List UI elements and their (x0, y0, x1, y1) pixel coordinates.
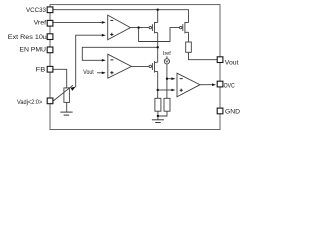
svg-text:VCC33: VCC33 (26, 7, 47, 14)
svg-text:EN PMU: EN PMU (19, 47, 46, 54)
chip border (50, 5, 220, 130)
wire VCC33 rail (53, 10, 189, 23)
svg-text:Vout: Vout (83, 70, 94, 76)
junction node A (157, 46, 159, 48)
junction rail-M1 (157, 9, 159, 11)
junction sense node (157, 89, 159, 91)
wire Radj bottom to ground (66, 102, 68, 112)
pin FB (47, 66, 53, 72)
wire FB riser to U1 plus (76, 35, 102, 87)
ground under R1 R2 (152, 120, 164, 123)
wire rail to M1 source (157, 10, 159, 23)
wire U3 output to OVC pin (200, 84, 212, 86)
pin GND (217, 108, 223, 114)
wire R1 bottom to ground junction (157, 111, 159, 119)
wire U1 output to M1 gate (130, 27, 149, 29)
wiper arrow Vadj (53, 85, 73, 101)
ground under Radj (60, 112, 72, 115)
op-amp U2 sense buffer (108, 54, 132, 78)
comparator U3 overcurrent (177, 73, 200, 97)
junction node B Iref (166, 78, 168, 80)
junction ground (157, 115, 159, 117)
wire Vref to U1 minus (53, 21, 102, 23)
junction U1 output (137, 26, 139, 28)
wire U1 output branch to M2 gate (139, 28, 180, 42)
pin EN PMU (47, 47, 53, 53)
wire Iref source stub (166, 56, 168, 59)
svg-text:Vadj<2:0>: Vadj<2:0> (17, 99, 43, 106)
svg-text:Ext Res 10u: Ext Res 10u (8, 34, 48, 41)
pin VCC33 (47, 7, 53, 13)
wire M3 drain to sense node (157, 71, 159, 98)
pin Vout (217, 57, 223, 63)
arrowhead into U3 plus (171, 89, 175, 92)
wire M2 drain to Rsense (188, 32, 190, 42)
resistor Rout (186, 42, 192, 52)
arrowhead into OVC (212, 83, 216, 86)
transistor M2 pass PMOS (180, 22, 189, 33)
wire Rsense to Vout pin (189, 52, 218, 59)
arrowhead into U3 minus (171, 77, 175, 80)
wire sense node to U3 plus (158, 89, 172, 91)
pin OVC (217, 81, 223, 87)
svg-text:Iref: Iref (163, 51, 171, 57)
svg-text:GND: GND (225, 108, 241, 115)
resistor Radj variable (64, 88, 70, 103)
transistor M1 sense PMOS (149, 22, 158, 33)
transistor M3 cascode PMOS (149, 61, 158, 73)
pin Ext Res 10u (47, 34, 53, 40)
svg-text:FB: FB (36, 66, 46, 73)
arrowhead into U2 plus (102, 72, 106, 75)
svg-text:Vref: Vref (34, 20, 47, 27)
wire U2 output to M3 gate (132, 65, 150, 67)
wire Vout label arrow to U2 plus (97, 72, 102, 74)
resistor R1 sense (155, 98, 161, 111)
arrowhead into U1 minus (102, 21, 106, 24)
wire FB pin to R adj top (53, 69, 67, 88)
wire R2 bottom to ground junction (158, 111, 167, 116)
current source Iref (164, 59, 169, 64)
wire Iref source to node B (166, 64, 168, 98)
wire M1 drain node A (157, 33, 159, 48)
arrowhead into U2 minus (102, 59, 106, 62)
pin Vref (47, 20, 53, 26)
op-amp U1 error amplifier (108, 15, 131, 40)
svg-text:OVC: OVC (224, 82, 236, 89)
wire node A feedback to U2 minus (82, 47, 157, 60)
pin Vadj (47, 98, 53, 104)
arrowhead into U1 plus (102, 34, 106, 37)
resistor R2 Iref load (164, 98, 170, 111)
wire node A to M3 source (157, 47, 159, 62)
wire node B to U3 minus (167, 78, 172, 80)
svg-text:Vout: Vout (225, 59, 239, 66)
